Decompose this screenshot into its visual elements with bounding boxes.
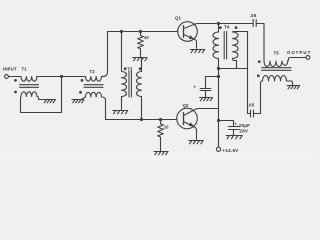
transformer T5 secondary phasing dot xyxy=(257,74,260,77)
transformer T5 core xyxy=(262,68,292,71)
svg-text:T4: T4 xyxy=(224,24,230,29)
Q1 collector xyxy=(184,24,219,29)
svg-text:.05: .05 xyxy=(248,103,255,108)
transistor Q1 xyxy=(178,22,198,42)
transformer T5 primary phasing dot xyxy=(258,60,261,63)
svg-text:40: 40 xyxy=(144,35,149,40)
wire Q1 base line xyxy=(108,31,178,33)
ground bypass capacitor xyxy=(200,98,213,101)
transformer T2 secondary phasing dot xyxy=(79,91,82,94)
wire Q2 base line xyxy=(106,119,177,121)
wire T5 secondary left down to bottom cap xyxy=(261,81,263,114)
node junction dot on input wire xyxy=(60,75,63,78)
wire T2 secondary right down to Q2 base line xyxy=(102,97,106,120)
svg-text:T5: T5 xyxy=(274,51,280,56)
svg-text:.05: .05 xyxy=(250,13,257,18)
ground T2 secondary xyxy=(72,100,84,103)
transformer T1 secondary winding xyxy=(21,92,37,97)
wire top to capacitor .05 xyxy=(219,23,253,25)
transformer T1 primary winding xyxy=(21,77,37,82)
transformer T3 core xyxy=(129,71,131,97)
node junction dot supply at top wire xyxy=(217,22,220,25)
wire right vertical T4 top to bottom capacitor xyxy=(247,32,249,114)
wire supply to right vertical xyxy=(219,68,248,70)
supply terminal +12.5V xyxy=(216,147,220,151)
capacitor bypass plates xyxy=(200,89,211,91)
transformer T4 right winding xyxy=(233,32,239,58)
wire bypass capacitor to ground xyxy=(205,91,207,98)
svg-text:T1: T1 xyxy=(22,67,28,72)
Q1 base bar xyxy=(183,26,185,37)
node junction dot T3 bottom xyxy=(140,118,143,121)
wire T3 left bottom lead to ground xyxy=(121,97,123,111)
ground T3 left xyxy=(113,111,128,114)
transformer T3 left winding xyxy=(122,72,127,97)
wire T2 primary right up to Q1 base line xyxy=(102,32,108,77)
transformer T2 secondary winding xyxy=(86,92,102,97)
wire right vertical to bottom cap xyxy=(248,113,251,115)
svg-text:Q1: Q1 xyxy=(175,16,182,21)
ground T1 secondary xyxy=(43,100,55,103)
Q1 emitter arrow xyxy=(189,35,194,39)
paper background xyxy=(0,0,312,161)
svg-text:Q2: Q2 xyxy=(183,103,190,108)
wire T1 secondary right to ground xyxy=(37,97,44,100)
wire T2 secondary left to ground xyxy=(82,97,86,99)
wire T3 left top lead xyxy=(121,32,123,72)
node junction dot T3 top lead xyxy=(120,30,123,33)
transformer T5 primary winding xyxy=(264,61,288,67)
ground 25uF xyxy=(226,136,242,139)
wire T3 right bottom lead to Q2 base line xyxy=(141,97,143,120)
output terminal xyxy=(306,56,310,60)
Q2 collector xyxy=(184,109,219,116)
transformer T3 phasing dot left xyxy=(124,67,127,70)
wire T4 right top lead across to right vertical xyxy=(233,31,248,34)
transformer T4 phasing dot right xyxy=(235,26,238,29)
transformer T4 core xyxy=(224,32,226,60)
input terminal xyxy=(5,75,9,79)
ground below resistor 40 xyxy=(133,58,148,61)
wire T5 secondary right to ground xyxy=(287,81,293,85)
ground below resistor 10 xyxy=(154,152,168,155)
wire supply rail xyxy=(218,59,220,147)
transformer T1 secondary phasing dot xyxy=(14,91,17,94)
wire T4 left top lead xyxy=(218,24,220,33)
svg-text:T3: T3 xyxy=(127,66,133,71)
wire input to T1 xyxy=(9,76,22,78)
node junction dot supply/T5 feed xyxy=(217,67,220,70)
svg-text:10: 10 xyxy=(164,124,169,129)
transformer T2 core xyxy=(84,85,103,88)
Q1 emitter xyxy=(184,34,197,48)
transformer T3 right winding xyxy=(137,72,142,97)
svg-text:25µF: 25µF xyxy=(239,123,250,128)
transformer T2 primary winding xyxy=(86,77,102,82)
transformer T2 primary phasing dot xyxy=(81,79,84,82)
capacitor C .05 bottom plates xyxy=(251,110,254,117)
resistor R 10 xyxy=(158,120,164,152)
wire T4 right bottom lead xyxy=(233,59,237,69)
svg-text:OUTPUT: OUTPUT xyxy=(287,50,311,55)
svg-text:+: + xyxy=(194,85,197,90)
transformer T1 core xyxy=(20,85,39,88)
wire bottom cap to T5 secondary xyxy=(254,113,261,115)
ground T5 secondary xyxy=(287,86,300,89)
Q2 base bar xyxy=(183,113,185,125)
node junction dot 25uF tap xyxy=(217,119,220,122)
svg-text:T2: T2 xyxy=(90,69,96,74)
Q2 emitter arrow xyxy=(189,122,194,126)
ground Q1 emitter xyxy=(190,50,205,53)
capacitor C .05 top plates xyxy=(253,20,256,27)
transformer T4 left winding xyxy=(213,32,219,58)
node junction dot resistor 10 xyxy=(159,118,162,121)
wire 25uF to ground xyxy=(233,130,235,136)
node junction dot resistor 40 xyxy=(139,30,142,33)
capacitor 25uF plates xyxy=(228,127,239,130)
transformer T5 secondary winding xyxy=(263,76,287,82)
resistor R 40 xyxy=(138,32,144,58)
wire T5 primary right to output terminal xyxy=(288,58,307,62)
svg-text:25V: 25V xyxy=(239,129,249,134)
transformer T1 primary phasing dot xyxy=(14,79,17,82)
svg-text:+: + xyxy=(234,121,237,126)
wire to bypass capacitor xyxy=(206,77,219,88)
ground Q2 emitter xyxy=(189,141,204,144)
transformer T3 phasing dot right xyxy=(139,67,142,70)
svg-text:+12.5V: +12.5V xyxy=(222,148,239,153)
transformer T4 phasing dot left xyxy=(219,26,222,29)
svg-text:INPUT: INPUT xyxy=(3,67,17,72)
wire T1 to T2 xyxy=(37,76,86,78)
transistor Q2 xyxy=(177,108,198,129)
wire to 25uF capacitor xyxy=(219,121,234,127)
wire T3 right top lead to ground bar xyxy=(141,58,143,72)
node junction dot bypass capacitor tap xyxy=(217,75,220,78)
wire T1 secondary left down, bottom loop to node xyxy=(21,77,62,113)
wire capacitor .05 to T5 primary xyxy=(257,24,265,62)
Q2 emitter xyxy=(184,122,197,140)
